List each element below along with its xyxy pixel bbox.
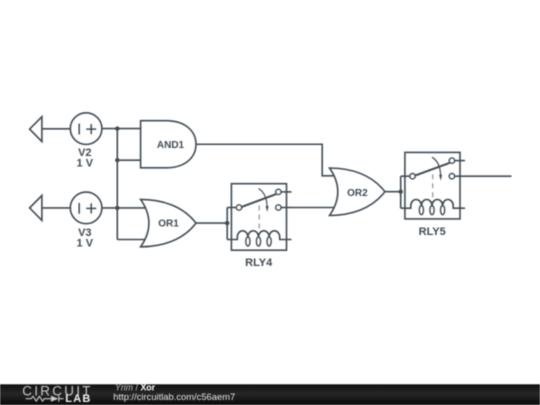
wire flag to V2 (42, 128, 70, 130)
node junction RLY4 drive (225, 221, 229, 225)
RLY5 common contact (410, 174, 415, 179)
RLY4 NC lead (281, 191, 291, 193)
RLY4 common contact (236, 205, 241, 210)
wire V3 to OR1 input A (102, 207, 147, 209)
wire RLY4 common-coil bracket (226, 208, 228, 240)
RLY5 NC lead (455, 160, 465, 162)
RLY4 common lead (227, 207, 236, 209)
wire RLY5 common-coil bracket (400, 176, 402, 208)
wire OR2 output to RLY5 (385, 191, 401, 193)
AND gate AND1 (141, 121, 196, 168)
RLY5 actuation arrow (432, 157, 441, 175)
svg-text:http://circuitlab.com/c56aem7: http://circuitlab.com/c56aem7 (113, 391, 235, 402)
wire RLY5 NO output (465, 175, 512, 177)
node junction AND1 input B (115, 158, 119, 162)
RLY5 common lead (401, 175, 410, 177)
voltage source V3 (70, 192, 102, 224)
RLY4 switch arm (242, 194, 276, 207)
CircuitLab logo (22, 384, 92, 405)
RLY4 coil (227, 231, 291, 240)
svg-text:AND1: AND1 (157, 140, 185, 151)
svg-text:1 V: 1 V (77, 158, 94, 170)
node junction bus top (115, 126, 119, 130)
wire RLY4 NO to OR2 input B (292, 207, 335, 209)
RLY5 switch arm (415, 163, 449, 176)
node junction OR1 input A (115, 206, 119, 210)
svg-text:RLY4: RLY4 (245, 257, 273, 269)
wire bus to AND1 input B (117, 159, 140, 161)
OR gate OR2 (330, 168, 385, 215)
wire V2 to AND1 input A (102, 128, 141, 130)
svg-text:OR2: OR2 (347, 188, 368, 199)
RLY5 coil (401, 200, 465, 209)
RLY4 NO lead (281, 207, 291, 209)
wire OR1 output to RLY4 (196, 222, 227, 224)
RLY4 NC contact (276, 189, 281, 194)
node junction RLY5 drive (399, 190, 403, 194)
relay RLY5 (401, 152, 465, 238)
RLY5 NC contact (449, 158, 454, 163)
input flag (net marker) at V3 (30, 196, 42, 221)
footer title text (113, 383, 235, 402)
RLY5 NO contact (449, 174, 454, 179)
RLY5 actuation dashed line (432, 174, 434, 198)
input flag (net marker) at V2 (30, 117, 42, 142)
wire vertical bus (116, 129, 118, 240)
svg-text:1 V: 1 V (77, 237, 94, 249)
RLY4 actuation dashed line (258, 206, 260, 230)
RLY4 actuation arrow (259, 189, 268, 207)
wire flag to V3 (42, 207, 70, 209)
RLY4 NO contact (276, 205, 281, 210)
svg-text:RLY5: RLY5 (419, 226, 446, 238)
OR gate OR1 (141, 199, 196, 246)
svg-text:LAB: LAB (65, 393, 91, 405)
wire bus to OR1 input B (117, 239, 147, 241)
svg-text:OR1: OR1 (158, 219, 179, 230)
RLY5 NO lead (455, 175, 465, 177)
relay RLY4 (227, 184, 291, 269)
voltage source V2 (70, 113, 102, 145)
wire AND1 output to OR2 input A (196, 144, 334, 176)
